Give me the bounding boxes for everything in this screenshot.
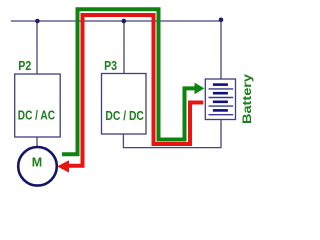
wire P2 top connector [36, 21, 38, 74]
svg-text:M: M [32, 155, 42, 169]
converter P2 box [15, 74, 61, 137]
battery cell plate long 3 [209, 105, 234, 107]
svg-text:P2: P2 [18, 59, 31, 73]
svg-text:DC / AC: DC / AC [18, 107, 56, 122]
wire P3 top connector [123, 21, 125, 74]
node junction dot P3 [122, 19, 127, 24]
battery cell plate short 3 [213, 101, 228, 104]
green power flow path motor to battery [62, 9, 196, 154]
battery cell plate long 4 [209, 114, 234, 116]
battery cell plate short 4 [213, 109, 228, 112]
battery box [205, 79, 235, 120]
red power flow path battery to motor [69, 15, 204, 166]
node junction dot P2 [35, 19, 40, 24]
node junction dot battery [219, 18, 224, 23]
wire top DC bus [11, 20, 221, 22]
svg-text:DC / DC: DC / DC [105, 108, 144, 123]
battery cell plate long 2 [209, 97, 234, 99]
svg-text:P3: P3 [104, 59, 117, 73]
converter P3 box [102, 74, 147, 135]
wire P3 bottom to battery bottom [123, 120, 221, 148]
motor M circle [18, 147, 57, 186]
svg-text:Battery: Battery [240, 74, 254, 124]
battery cell plate long 1 [209, 88, 234, 90]
red arrowhead at motor [57, 160, 69, 172]
wire P2 to motor [36, 137, 38, 147]
battery cell plate short 2 [213, 92, 228, 95]
green arrowhead at battery [195, 83, 205, 95]
battery cell plate short 1 [213, 83, 228, 86]
wire battery top connector [220, 21, 222, 79]
